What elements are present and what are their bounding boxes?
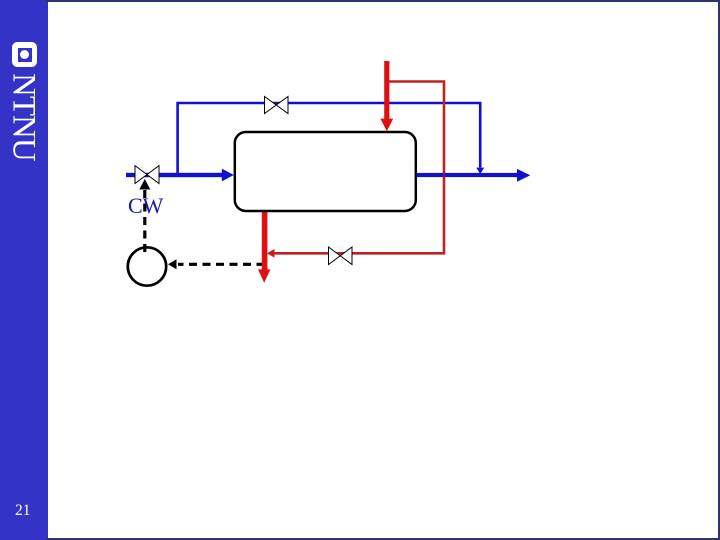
wire: cold feed (thick blue horizontal) xyxy=(126,169,234,182)
sidebar blue band xyxy=(0,0,48,540)
wire: hot feed (thick red vertical shaft) xyxy=(380,61,393,131)
control signal: measurement line (dashed horizontal) xyxy=(178,263,265,266)
wire: cold bypass (thin blue polyline) xyxy=(178,103,481,175)
arrowhead: hot bypass into outlet xyxy=(267,249,275,258)
wire: hot outlet (thick red vertical down) xyxy=(258,211,270,283)
top border xyxy=(46,0,720,2)
NTNU logo inner circle xyxy=(20,50,29,59)
valve V3 (hot bypass valve) xyxy=(329,247,353,265)
page number 21 xyxy=(15,502,31,520)
control signal: valve command (dashed vertical) xyxy=(143,189,146,252)
NTNU wordmark (rotated) xyxy=(0,0,48,240)
right border xyxy=(718,0,720,540)
controller (circle) xyxy=(128,247,166,285)
heat exchanger vessel (rounded rectangle) xyxy=(235,132,416,211)
arrowhead: measurement into controller xyxy=(168,259,177,269)
wire: cold outlet (thick blue horizontal with big arrow) xyxy=(416,169,530,182)
valve V2 (cold bypass valve) xyxy=(265,97,289,114)
crossing blend of hot bypass over cold outlet xyxy=(443,172,446,179)
arrowhead: cold bypass into outlet xyxy=(476,168,484,174)
NTNU logo inner square xyxy=(18,48,32,62)
wire: hot bypass (thin red polyline) xyxy=(272,82,444,254)
valve V1 (CW control valve) xyxy=(135,166,159,184)
arrowhead: command into valve V1 xyxy=(139,179,150,190)
bottom border xyxy=(46,538,720,540)
NTNU logo mark xyxy=(12,42,37,67)
